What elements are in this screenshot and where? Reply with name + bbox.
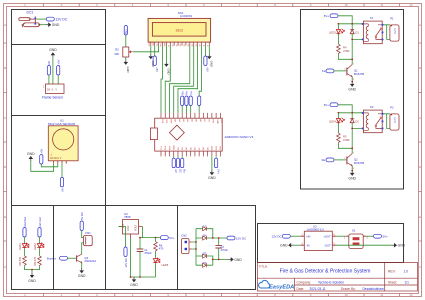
junction dots diode bus left	[195, 241, 197, 250]
svg-text:D8: D8	[203, 146, 205, 150]
svg-text:D2: D2	[178, 146, 180, 150]
connector CN2	[181, 233, 192, 253]
svg-text:1.0: 1.0	[404, 270, 409, 274]
svg-text:R9 470: R9 470	[33, 256, 37, 265]
wire MQ2 VCC to +5V	[41, 164, 58, 167]
microcontroller ARDUINO NANO V3	[150, 113, 253, 156]
svg-text:E: E	[4, 215, 6, 219]
wire 7805 GND down	[131, 227, 161, 278]
svg-text:REF: REF	[169, 119, 171, 124]
net flag Re at Q2 base	[322, 158, 334, 162]
svg-text:K2: K2	[370, 105, 374, 109]
wire flame sensor pin2 to GND	[52, 58, 54, 84]
wire MQ2 GND	[31, 161, 54, 171]
box: relay driver section	[301, 10, 404, 190]
net flag 12V DC at 7805	[124, 247, 128, 268]
svg-text:G: G	[52, 89, 54, 92]
net flag +5V at LCD A	[204, 56, 210, 72]
svg-text:VSS: VSS	[149, 42, 151, 47]
svg-text:3V3: 3V3	[165, 119, 167, 124]
wire Q1 emitter to GND	[351, 77, 353, 82]
net flag Grn Led	[38, 217, 42, 237]
svg-text:1/1: 1/1	[405, 280, 410, 284]
svg-text:S1: S1	[352, 229, 356, 233]
svg-text:470uF: 470uF	[144, 251, 152, 255]
svg-text:Re: Re	[322, 158, 326, 162]
svg-text:12V DC: 12V DC	[124, 258, 128, 267]
svg-text:D5: D5	[190, 146, 192, 150]
svg-text:ARDUINO NANO V3: ARDUINO NANO V3	[225, 135, 254, 139]
title block frame	[257, 263, 417, 292]
LED LED5	[153, 252, 168, 277]
wire Arduino GND pin down	[211, 156, 213, 169]
svg-text:F: F	[4, 265, 6, 269]
box: 7805 regulator section	[106, 206, 178, 290]
svg-text:Date:: Date:	[297, 287, 305, 291]
svg-text:12V DC: 12V DC	[271, 234, 281, 238]
junction dots 7805 rails	[130, 237, 157, 278]
svg-text:11: 11	[380, 3, 383, 7]
svg-text:V: V	[55, 89, 57, 92]
net flag +5V at MQ2	[40, 148, 44, 164]
wire MQ2 A0	[61, 164, 63, 178]
capacitor C2 470uF	[215, 245, 228, 252]
ground GND at LCD VSS	[149, 54, 156, 67]
svg-text:BC547B: BC547B	[354, 72, 364, 76]
svg-text:Bu: Bu	[183, 169, 187, 173]
svg-text:E: E	[419, 215, 421, 219]
svg-text:2N2222A: 2N2222A	[84, 259, 96, 263]
svg-text:A0 D0 G V: A0 D0 G V	[50, 157, 62, 160]
resistor R6 470	[154, 238, 164, 252]
net flag 5V DC buzzer	[80, 212, 84, 230]
svg-text:LED5: LED5	[162, 263, 169, 267]
svg-text:LED1: LED1	[18, 243, 22, 250]
svg-text:Grn led: Grn led	[38, 217, 42, 226]
svg-text:+OUT: +OUT	[323, 234, 331, 238]
svg-text:A5: A5	[195, 119, 198, 122]
wire DC1 pin1 to 12V DC flag	[36, 18, 46, 20]
svg-text:10K: 10K	[114, 52, 119, 56]
svg-text:R5: R5	[343, 134, 347, 138]
wire buzzer to Q3 collector	[82, 243, 84, 254]
svg-text:D2: D2	[47, 61, 51, 65]
wire DC1 pin2 to GND	[39, 24, 46, 26]
wire LED2 to R9	[39, 249, 41, 256]
net flag A0 below Arduino	[172, 156, 178, 173]
wire LCD VDD to +5V	[154, 46, 156, 57]
svg-text:Re: Re	[185, 91, 189, 95]
buck converter U3 LM2596S	[300, 225, 336, 251]
svg-text:D2: D2	[355, 119, 359, 123]
wire Grn Led flag to LED2	[39, 237, 41, 243]
wire 5V DC to buzzer	[82, 231, 84, 238]
svg-text:A6: A6	[199, 119, 202, 122]
svg-text:Fa: Fa	[322, 69, 326, 73]
wire LED4 to R5	[337, 123, 339, 133]
svg-text:12V DC: 12V DC	[55, 18, 67, 22]
diode D2 flyback	[350, 113, 359, 124]
net flag +5V flame sensor	[57, 59, 61, 75]
svg-text:D13: D13	[161, 119, 163, 124]
svg-text:470R: 470R	[343, 138, 349, 142]
svg-text:A3: A3	[186, 119, 189, 122]
junction dots relay 1 top rail	[338, 23, 354, 25]
connector P1	[390, 17, 399, 41]
svg-text:R8 470: R8 470	[18, 256, 22, 265]
diode D4	[203, 234, 207, 240]
svg-text:10: 10	[345, 3, 349, 7]
wire 5V+ to relay 2 top rail	[338, 105, 363, 113]
svg-text:1: 1	[353, 152, 355, 154]
svg-text:2: 2	[367, 237, 369, 240]
flame sensor module U6	[42, 84, 64, 100]
svg-text:D6: D6	[195, 146, 197, 150]
svg-text:D2: D2	[178, 169, 182, 173]
net flag Re above Arduino	[185, 91, 189, 113]
svg-text:5V+: 5V+	[324, 103, 330, 107]
svg-text:B: B	[419, 66, 421, 70]
svg-text:A: A	[4, 23, 6, 27]
svg-text:5V+: 5V+	[383, 235, 389, 239]
diode D1 flyback	[350, 24, 359, 35]
box: power input section	[12, 10, 106, 45]
svg-text:5V+: 5V+	[216, 169, 220, 174]
svg-text:VIN: VIN	[220, 119, 222, 123]
transistor Q2 BC547B	[344, 152, 364, 170]
svg-text:-OUT: -OUT	[324, 243, 331, 247]
ground GND below Q2	[348, 171, 356, 181]
svg-text:+5V: +5V	[40, 148, 44, 153]
svg-text:RST: RST	[212, 119, 214, 124]
wire LCD D4 to Arduino D5	[169, 46, 189, 113]
svg-text:A0: A0	[60, 188, 64, 192]
ground GND below Arduino	[208, 170, 216, 180]
ground GND at LCD RW	[164, 62, 171, 75]
wire LCD D7 to Arduino D2	[199, 46, 201, 113]
net flag 5V+ below Arduino	[215, 156, 221, 174]
box: gas sensor section	[12, 116, 106, 206]
ground GND below LEDs	[28, 273, 36, 283]
ground GND at 7805	[130, 277, 138, 287]
svg-text:D10: D10	[212, 145, 214, 150]
net flag 5V+ at 7805 output	[160, 236, 175, 240]
svg-text:D1: D1	[355, 30, 359, 34]
diode D6	[203, 261, 207, 267]
ground GND at DC1	[46, 22, 60, 27]
resistor R5 470	[337, 133, 350, 144]
LED LED2	[33, 243, 44, 250]
svg-text:D0: D0	[47, 89, 51, 92]
wire CN2 to diode bus left	[192, 229, 196, 266]
wire Red Led flag to LED1	[24, 237, 26, 243]
net flag 12V DC at bridge	[227, 236, 246, 240]
wire Q3 emitter to GND	[81, 263, 83, 268]
net flag 5V+ relay 1	[324, 14, 338, 18]
svg-text:+5V: +5V	[155, 67, 159, 72]
svg-text:+5V: +5V	[206, 67, 210, 72]
wire LCD A to +5V	[204, 46, 206, 57]
svg-text:10: 10	[345, 293, 349, 297]
LED LED1	[18, 243, 29, 250]
svg-text:LCD16X2: LCD16X2	[180, 14, 193, 18]
wire +OUT to switch S1	[336, 235, 346, 237]
connector P2	[390, 106, 399, 131]
buzzer BZ1	[84, 231, 93, 246]
svg-text:5V: 5V	[207, 119, 209, 122]
junction dots relay 1 coil and collector	[351, 39, 353, 61]
wire LCD D6 to Arduino D3	[178, 46, 198, 113]
svg-text:P1: P1	[390, 17, 394, 21]
wire pot wiper to LCD V0	[134, 46, 159, 52]
svg-text:3: 3	[353, 79, 355, 81]
svg-text:GND: GND	[174, 145, 176, 150]
svg-text:5V+: 5V+	[169, 236, 175, 240]
LED LED4	[329, 113, 344, 124]
ground GND at buck input	[280, 243, 293, 248]
wire flame sensor pin3 to +5V flag	[57, 75, 59, 84]
svg-text:TX1: TX1	[161, 145, 163, 150]
svg-text:GND: GND	[126, 67, 130, 73]
wire -OUT to GND	[336, 244, 392, 246]
svg-text:12V DC: 12V DC	[236, 236, 246, 240]
svg-text:A7: A7	[203, 119, 206, 122]
svg-text:D4: D4	[186, 146, 188, 150]
svg-text:D7: D7	[199, 146, 201, 150]
diode D3	[203, 224, 207, 230]
net flag D2 flame sensor	[47, 61, 51, 75]
LCD display DS1	[148, 11, 211, 46]
svg-text:LED4: LED4	[329, 120, 336, 124]
regulator U2 7805	[119, 212, 143, 238]
svg-text:1: 1	[344, 237, 346, 240]
svg-text:D3: D3	[182, 146, 184, 150]
wire diode bus right top pair	[206, 229, 227, 238]
wire LCD RW to GND	[165, 46, 167, 62]
svg-text:5V+: 5V+	[324, 14, 330, 18]
svg-text:CN1: CN1	[85, 231, 91, 235]
junction dots relay 2 top rail	[338, 112, 354, 114]
wire Buzzer flag to Q3 base	[68, 257, 77, 259]
svg-text:R2: R2	[115, 47, 119, 51]
box: buck converter section	[258, 224, 404, 263]
net flag A0 at MQ2	[60, 177, 64, 191]
svg-text:D11: D11	[216, 145, 218, 150]
ground GND at buck output	[392, 243, 406, 248]
wire LED resistors to common ground	[25, 266, 40, 272]
box: flame sensor section	[12, 45, 106, 116]
svg-text:LED3: LED3	[329, 31, 336, 35]
wire 5V+ to pot R2	[125, 35, 127, 47]
svg-text:P2: P2	[390, 106, 394, 110]
svg-text:BC547B: BC547B	[354, 161, 364, 165]
junction dot Q2 emitter	[351, 170, 353, 172]
svg-text:7805: 7805	[124, 215, 131, 219]
net flag D7 capsule above Arduino right	[198, 96, 201, 106]
svg-text:A1: A1	[178, 119, 181, 122]
ground GND above flame sensor	[49, 48, 57, 58]
net flag Bu below Arduino	[181, 156, 187, 173]
svg-text:470R: 470R	[343, 49, 349, 53]
junction dots relay 2 coil and collector	[351, 127, 353, 149]
wire Fa flag to Q1 base	[334, 70, 347, 72]
wire Re flag to Q2 base	[334, 159, 347, 161]
svg-text:1 2 3: 1 2 3	[393, 28, 396, 34]
diode D5	[203, 252, 207, 258]
resistor R9 470R	[33, 256, 41, 266]
svg-text:1: 1	[43, 86, 45, 89]
box: indicator LEDs section	[12, 206, 54, 290]
svg-text:1 2 3: 1 2 3	[393, 117, 396, 123]
svg-text:Desaishubham: Desaishubham	[363, 287, 385, 291]
svg-text:12: 12	[409, 3, 413, 7]
svg-text:Fire & Gas Detector & Protecti: Fire & Gas Detector & Protection System	[280, 269, 371, 275]
svg-text:5V+: 5V+	[124, 29, 128, 34]
wire relay K1 to P1	[383, 25, 390, 40]
net flag 12V DC at buck input	[271, 234, 290, 238]
wire relay K2 to P2	[383, 114, 390, 129]
svg-text:12: 12	[409, 293, 413, 297]
wire LED1 to R8	[24, 249, 26, 256]
svg-text:5V DC: 5V DC	[80, 212, 84, 220]
svg-text:R4: R4	[343, 45, 347, 49]
wire GND to -IN	[293, 244, 300, 246]
svg-text:B: B	[4, 66, 6, 70]
net flag Fa at Q1 base	[322, 69, 334, 73]
resistor R4 470	[337, 44, 350, 55]
svg-text:K1: K1	[370, 16, 374, 20]
wire 7805 VIN to 12V DC flag	[119, 227, 126, 248]
ground GND at bridge	[229, 257, 243, 262]
svg-text:16x2: 16x2	[175, 28, 183, 32]
relay K2	[362, 105, 384, 133]
box: diode bridge section	[178, 206, 256, 290]
LED LED3	[329, 24, 344, 35]
svg-text:F: F	[419, 265, 421, 269]
wire S1 to 5V+ flag	[366, 235, 373, 237]
net flag Buzzer	[47, 256, 68, 260]
svg-text:Company:: Company:	[297, 280, 312, 284]
wire Q2 emitter to GND	[351, 166, 353, 171]
svg-text:GND: GND	[127, 225, 130, 231]
svg-text:Bu: Bu	[180, 91, 184, 95]
net flag Fa above Arduino	[189, 91, 193, 113]
wire LCD RS to Arduino D12	[161, 46, 163, 113]
connector DC1 barrel jack	[19, 11, 40, 28]
svg-text:Flame Sensor: Flame Sensor	[42, 96, 64, 100]
svg-text:RX0: RX0	[165, 145, 167, 150]
junction dots diode bus right	[212, 237, 220, 260]
net flag D2 below Arduino	[176, 156, 182, 173]
svg-text:VDD: VDD	[153, 41, 155, 46]
title block texts	[259, 264, 410, 291]
ground GND below Q3	[78, 268, 86, 278]
svg-text:A2: A2	[182, 119, 185, 122]
resistor R8 470R	[18, 256, 26, 266]
net flag 12V DC	[46, 17, 68, 21]
wire LCD K to GND	[208, 46, 210, 54]
svg-text:Fa: Fa	[189, 91, 193, 95]
svg-text:470uF: 470uF	[221, 248, 229, 252]
svg-text:DC1: DC1	[27, 11, 34, 15]
junction dot Q1 emitter	[351, 81, 353, 83]
svg-text:470: 470	[159, 247, 164, 251]
wire LCD D5 to Arduino D4	[174, 46, 194, 113]
relay K1	[362, 16, 384, 44]
svg-text:11: 11	[380, 293, 383, 297]
wire LCD E to Arduino D11	[165, 46, 170, 113]
svg-text:VOUT: VOUT	[135, 224, 138, 231]
svg-text:3: 3	[353, 168, 355, 170]
wire flame sensor pin1 to D2 flag	[48, 75, 50, 84]
net flag +5V at LCD VDD	[153, 56, 159, 72]
svg-text:LED2: LED2	[33, 243, 37, 250]
svg-text:GND: GND	[210, 61, 214, 67]
wire diode bus right bottom pair	[206, 238, 228, 265]
svg-text:A0: A0	[174, 119, 177, 122]
net flag 5V+ above pot	[124, 26, 128, 36]
svg-text:+IN: +IN	[306, 234, 310, 238]
ground GND below pot	[124, 60, 131, 73]
ground GND below Q1	[348, 82, 356, 92]
wire pot bottom to GND	[125, 57, 127, 60]
box: buzzer section	[54, 206, 106, 290]
wire diode rows left stubs	[196, 229, 203, 266]
wire D1 and coil to collector rail	[338, 34, 363, 65]
svg-text:VIN: VIN	[122, 224, 125, 228]
ground GND at MQ2	[27, 152, 35, 162]
svg-text:GND: GND	[216, 119, 218, 124]
EasyEDA logo	[259, 280, 295, 290]
svg-text:A0: A0	[174, 169, 178, 173]
svg-text:Sheet:: Sheet:	[388, 280, 397, 284]
svg-text:REV:: REV:	[388, 270, 396, 274]
svg-text:Drawn By:: Drawn By:	[341, 287, 356, 291]
svg-text:TITLE:: TITLE:	[259, 264, 268, 268]
svg-text:EasyEDA: EasyEDA	[269, 285, 294, 291]
junction at LED ground rail	[31, 269, 33, 271]
ground GND at LCD K	[207, 54, 214, 67]
wire LED3 to R4	[337, 34, 339, 44]
capacitor C1 470uF	[137, 238, 152, 277]
gas sensor U1 MQ2	[48, 118, 78, 163]
switch S1	[344, 229, 369, 249]
svg-text:CN2: CN2	[181, 233, 187, 237]
svg-text:A: A	[419, 23, 421, 27]
svg-text:1: 1	[353, 63, 355, 65]
svg-text:+5V: +5V	[57, 59, 61, 64]
svg-text:D9: D9	[207, 146, 209, 150]
svg-text:Techno-E-Solution: Techno-E-Solution	[318, 280, 344, 284]
net flag 5V+ relay 2	[324, 103, 338, 107]
transistor Q3 2N2222A	[77, 254, 97, 263]
svg-text:Red led: Red led	[23, 217, 27, 227]
svg-text:2021-03-11: 2021-03-11	[310, 287, 326, 291]
wire 5V+ to relay 1 top rail	[338, 16, 363, 24]
transistor Q1 BC547B	[344, 63, 364, 81]
net flag 5V+ at buck output	[374, 234, 389, 238]
svg-text:A4: A4	[190, 119, 193, 122]
svg-text:MQ2 GAS SENSOR: MQ2 GAS SENSOR	[48, 122, 76, 126]
net flag Bu above Arduino	[180, 91, 184, 113]
net flag Red Led	[23, 217, 27, 237]
wire LCD VSS to GND	[150, 46, 152, 54]
svg-text:RST: RST	[169, 145, 171, 150]
svg-text:Buzzer: Buzzer	[47, 257, 56, 261]
wire D2 and coil to collector rail	[338, 123, 363, 154]
svg-text:-IN: -IN	[306, 243, 310, 247]
potentiometer R2 10K	[114, 47, 133, 57]
